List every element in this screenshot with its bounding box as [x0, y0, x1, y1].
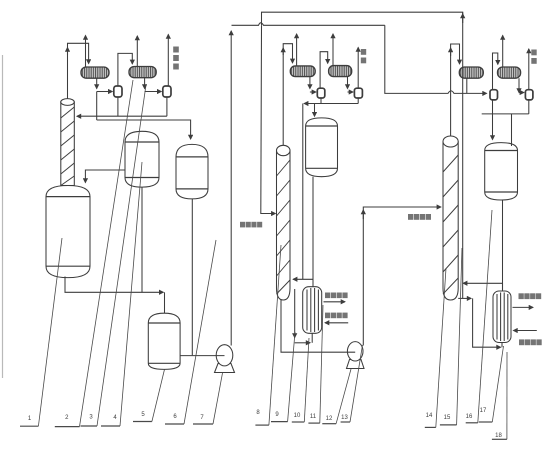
svg-text:3: 3: [89, 415, 93, 421]
label heat oil out right: [519, 293, 542, 299]
column T3 body: [443, 136, 458, 300]
condenser E4: [329, 66, 352, 77]
wire drum D1 bottoms: [141, 187, 143, 292]
leader 4: [101, 425, 120, 427]
leader 8: [255, 424, 269, 426]
pump P1: [215, 345, 235, 373]
vessel V4: [485, 143, 518, 200]
wire column bottoms to reboiler: [294, 289, 296, 338]
pump P2: [347, 342, 365, 369]
wire E4 outlet to trap S4: [347, 77, 349, 89]
wire S2 bottom: [166, 97, 168, 116]
trap S4: [354, 88, 362, 98]
leader 6: [165, 423, 184, 425]
svg-text:11: 11: [310, 414, 317, 420]
condenser E2: [129, 67, 156, 78]
svg-text:9: 9: [275, 412, 279, 418]
svg-text:16: 16: [466, 414, 473, 420]
wire reboiler bottom stub: [311, 333, 313, 343]
wire S4 vacuum riser: [357, 48, 359, 89]
wire header drop right side: [511, 114, 513, 146]
wire S2 vacuum riser: [167, 35, 169, 87]
label heat oil out middle: [325, 293, 348, 299]
wire header drop to vessel V3: [314, 104, 316, 117]
wire overhead vapor T2 to E3: [283, 44, 292, 145]
wire E1 outlet to trap S1: [96, 78, 98, 88]
trap S5: [490, 90, 498, 100]
wire S3 top to E4: [320, 52, 328, 88]
leader 14: [425, 426, 436, 428]
svg-text:15: 15: [444, 415, 451, 421]
wire drum D1 to vessel V1: [85, 170, 125, 183]
svg-text:7: 7: [200, 415, 204, 421]
label heat oil in middle: [325, 313, 348, 319]
leader 9: [271, 421, 288, 423]
column T1 hatch: [61, 107, 75, 186]
wire header drop to vessel V4: [492, 114, 494, 140]
wire line A down to middle column feed: [261, 25, 276, 213]
wire S6 vacuum riser: [528, 49, 530, 90]
svg-text:6: 6: [173, 414, 177, 420]
svg-text:14: 14: [426, 413, 433, 419]
wire reflux header middle: [304, 103, 358, 105]
wire vent E7: [502, 36, 504, 68]
wire vessel V3 bottoms: [312, 177, 314, 280]
wire line A top run: [262, 12, 463, 25]
wire heat oil in right: [514, 330, 537, 332]
svg-text:13: 13: [341, 415, 348, 421]
trap S2: [163, 86, 171, 97]
reboiler E8: [493, 291, 511, 343]
wire trap bottoms right: [492, 100, 494, 114]
wire heat oil out right: [513, 306, 533, 308]
label vacuum middle: [361, 49, 366, 63]
reboiler E5: [303, 287, 322, 334]
label vacuum left: [173, 47, 179, 70]
leader 12: [322, 423, 336, 425]
leader 1: [20, 425, 38, 427]
wire column bottoms to reboiler right: [458, 297, 471, 299]
leader 13: [341, 421, 350, 423]
wire E7 outlet to trap S6: [518, 78, 520, 92]
numbers: [28, 408, 503, 439]
wire E1 outlet down to header B: [96, 92, 98, 121]
vessel V2 receiver: [148, 313, 180, 369]
wire overhead vapor T1 to E1: [68, 43, 89, 99]
wire header B to drum D2: [97, 120, 191, 139]
wire vent E4: [332, 34, 334, 66]
column T3 hatch: [443, 155, 458, 294]
svg-text:17: 17: [480, 408, 487, 414]
svg-text:4: 4: [113, 415, 117, 421]
label feed right: [408, 214, 431, 220]
svg-text:1: 1: [28, 416, 32, 422]
wire E3 outlet to trap S3: [309, 77, 311, 89]
label feed middle: [240, 222, 262, 228]
label heat oil in right: [519, 339, 542, 345]
svg-text:2: 2: [65, 415, 69, 421]
wire pump P2 discharge to right column feed: [363, 207, 441, 346]
leader 5: [133, 421, 152, 423]
condenser E3: [290, 66, 315, 77]
drum D1: [125, 131, 159, 187]
svg-text:8: 8: [256, 410, 260, 416]
vessel V3: [306, 118, 338, 177]
wire reflux header right: [482, 113, 529, 115]
wire vent E1: [85, 36, 87, 67]
svg-text:18: 18: [495, 433, 502, 439]
condenser E6: [459, 67, 483, 78]
wire trap bottoms to header: [320, 98, 322, 104]
wire E6 outlet to trap S5: [466, 78, 468, 93]
column T1 body: [61, 99, 75, 186]
wire reboiler bottom stub right: [501, 343, 503, 348]
leader 16: [466, 422, 478, 424]
wire vessel V4 bottoms: [502, 200, 504, 291]
wire overhead vapor T3 to E6: [451, 44, 460, 136]
wire heat oil out middle: [324, 301, 345, 303]
svg-text:5: 5: [141, 412, 145, 418]
leader 2: [55, 426, 80, 428]
svg-text:12: 12: [326, 416, 333, 422]
leader 15: [440, 424, 457, 426]
wire V2 to pump P1 suction: [180, 355, 224, 357]
leader 3: [81, 425, 98, 427]
wire reboiler vapor return to column: [463, 283, 502, 291]
leader 11: [308, 422, 319, 424]
wire S1 top to E2: [118, 53, 132, 86]
vessel V1 still pot: [46, 186, 90, 278]
wire line A riser from bottoms: [462, 12, 464, 298]
leader 17: [479, 421, 493, 423]
wire E2 outlet to trap S2: [144, 78, 146, 89]
column T2 body: [277, 145, 291, 300]
wire reflux header A to column: [77, 115, 167, 117]
wire line B down and across: [385, 25, 487, 93]
drum D2: [176, 144, 208, 199]
wire reboiler vapor return to column: [293, 279, 313, 286]
wire line B top run with hop: [232, 23, 385, 26]
leader 10: [292, 421, 305, 423]
condenser E1: [81, 67, 109, 78]
column T2 hatch: [277, 160, 291, 294]
wire pump P1 discharge riser: [230, 31, 232, 346]
wire S5 top to E7: [493, 53, 498, 90]
wire column bottoms to pump suction: [281, 300, 355, 352]
label vacuum right: [531, 50, 536, 64]
wire V1 bottoms to V2: [65, 277, 163, 293]
trap S1: [114, 86, 122, 97]
leader 7: [193, 423, 213, 425]
wire header down to reboiler return line: [302, 104, 304, 280]
trap S3: [317, 88, 325, 98]
wire drum D2 bottoms: [191, 199, 193, 355]
leader 18: [492, 438, 507, 440]
svg-text:10: 10: [294, 413, 301, 419]
wire S1 bottom: [117, 97, 119, 116]
wire heat oil in middle: [325, 322, 348, 324]
condenser E7: [498, 67, 521, 78]
trap S6: [525, 90, 533, 100]
wire vent E2: [136, 36, 138, 67]
border artifact left edge: [2, 55, 4, 378]
wire vent E3: [296, 34, 298, 66]
